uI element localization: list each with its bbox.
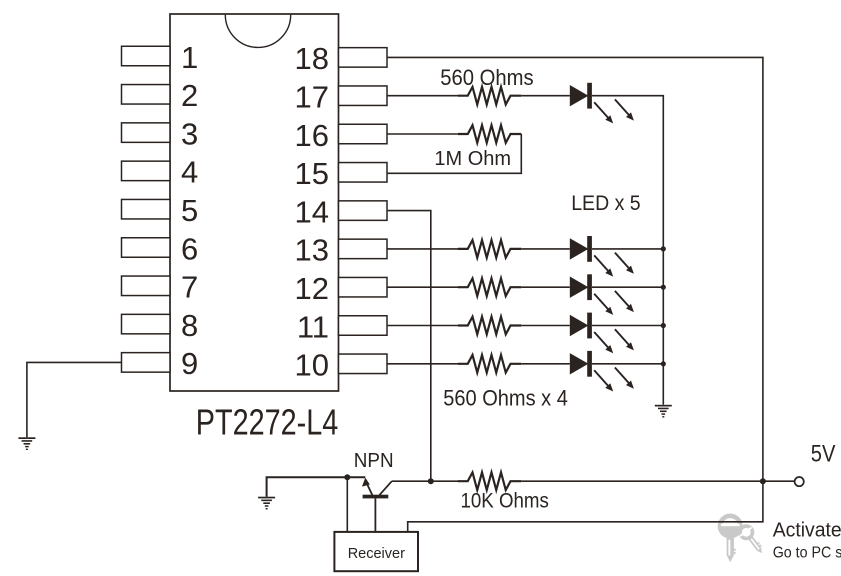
svg-text:560 Ohms x 4: 560 Ohms x 4 [443, 387, 568, 411]
svg-text:5: 5 [181, 193, 198, 228]
svg-text:Receiver: Receiver [348, 546, 405, 562]
svg-text:10: 10 [295, 348, 329, 383]
svg-text:11: 11 [297, 309, 329, 344]
svg-text:PT2272-L4: PT2272-L4 [196, 401, 338, 442]
svg-text:NPN: NPN [354, 449, 394, 472]
svg-text:12: 12 [295, 271, 329, 306]
svg-text:560 Ohms: 560 Ohms [440, 66, 533, 90]
svg-text:Go to PC settings to activate: Go to PC settings to activate [773, 545, 841, 562]
svg-text:7: 7 [181, 270, 198, 305]
svg-text:5V: 5V [811, 440, 836, 467]
svg-text:8: 8 [181, 308, 198, 343]
svg-text:1: 1 [181, 40, 198, 75]
svg-text:9: 9 [181, 346, 198, 381]
svg-text:15: 15 [295, 156, 329, 191]
svg-text:6: 6 [181, 231, 198, 266]
svg-text:3: 3 [181, 116, 198, 151]
svg-text:Activate Windows: Activate Windows [773, 519, 841, 541]
svg-text:18: 18 [295, 41, 329, 76]
svg-text:1M Ohm: 1M Ohm [434, 148, 511, 170]
svg-text:2: 2 [181, 78, 198, 113]
svg-text:16: 16 [295, 118, 329, 153]
svg-text:10K Ohms: 10K Ohms [461, 489, 549, 512]
svg-text:14: 14 [295, 194, 329, 229]
svg-text:13: 13 [295, 233, 329, 268]
svg-text:17: 17 [295, 80, 329, 115]
svg-text:LED x 5: LED x 5 [571, 192, 640, 215]
svg-text:4: 4 [181, 155, 198, 190]
